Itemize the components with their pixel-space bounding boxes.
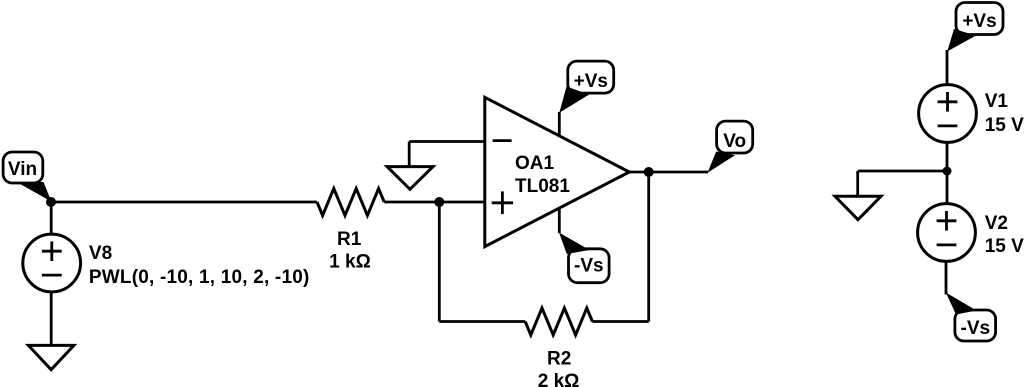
svg-text:+Vs: +Vs: [574, 71, 608, 92]
svg-text:-Vs: -Vs: [574, 255, 604, 276]
wire Vin node down to V8: [50, 202, 53, 235]
wire ground stem (op-amp): [408, 142, 411, 168]
node B (supply midpoint): [943, 167, 952, 176]
svg-text:Vo: Vo: [723, 131, 746, 152]
net label +Vs (right): [947, 3, 1003, 52]
wire ground stem (right): [856, 171, 859, 196]
node A (+ input / feedback): [434, 197, 444, 207]
svg-text:15 V: 15 V: [985, 236, 1024, 257]
svg-text:OA1: OA1: [515, 153, 555, 174]
net label Vin: [3, 152, 51, 202]
svg-text:V2: V2: [985, 213, 1008, 234]
wire R2 to output vertical: [592, 320, 648, 323]
wire -Vs stem: [558, 209, 561, 234]
svg-text:+Vs: +Vs: [962, 11, 996, 32]
wire node to ground horizontal: [858, 170, 947, 173]
net label -Vs (right): [946, 293, 996, 342]
resistor R2: [525, 308, 592, 335]
svg-text:15 V: 15 V: [985, 115, 1024, 136]
wire node to V2: [946, 171, 949, 204]
net label -Vs (op-amp): [559, 233, 609, 283]
voltage source V1: [919, 85, 977, 143]
wire R1 to op-amp + input: [384, 201, 486, 204]
wire inverting input: [409, 140, 486, 143]
wire V8 to ground: [50, 292, 53, 345]
wire +Vs stem: [558, 112, 561, 136]
resistor R1: [317, 189, 384, 216]
svg-text:TL081: TL081: [515, 176, 570, 197]
svg-text:-Vs: -Vs: [961, 318, 991, 339]
wire +Vs stem to V1: [946, 50, 949, 85]
wire feedback left vertical: [438, 202, 441, 322]
wire feedback right vertical: [647, 172, 650, 322]
svg-text:V8: V8: [89, 243, 112, 264]
wire V1 to node: [946, 142, 949, 171]
wire output: [629, 171, 708, 174]
svg-text:V1: V1: [985, 91, 1009, 112]
svg-text:2 kΩ: 2 kΩ: [538, 371, 580, 387]
node Vo: [644, 167, 654, 177]
op-amp OA1: [485, 97, 630, 246]
net label +Vs (op-amp): [559, 61, 613, 113]
svg-text:1 kΩ: 1 kΩ: [329, 251, 371, 272]
node Vin: [46, 197, 56, 207]
svg-text:R1: R1: [337, 229, 362, 250]
net label Vo: [708, 121, 753, 173]
wire feedback bottom left: [439, 320, 525, 323]
ground (V8): [28, 345, 74, 369]
voltage source V2: [918, 204, 976, 262]
svg-text:PWL(0, -10, 1, 10, 2, -10): PWL(0, -10, 1, 10, 2, -10): [89, 267, 310, 288]
voltage source V8: [23, 234, 81, 292]
ground (op-amp inverting input): [387, 167, 433, 190]
wire main horizontal to R1: [51, 201, 317, 204]
svg-text:R2: R2: [547, 348, 571, 369]
ground (right): [835, 196, 881, 219]
svg-text:Vin: Vin: [8, 159, 37, 180]
wire V2 to -Vs: [945, 261, 948, 294]
